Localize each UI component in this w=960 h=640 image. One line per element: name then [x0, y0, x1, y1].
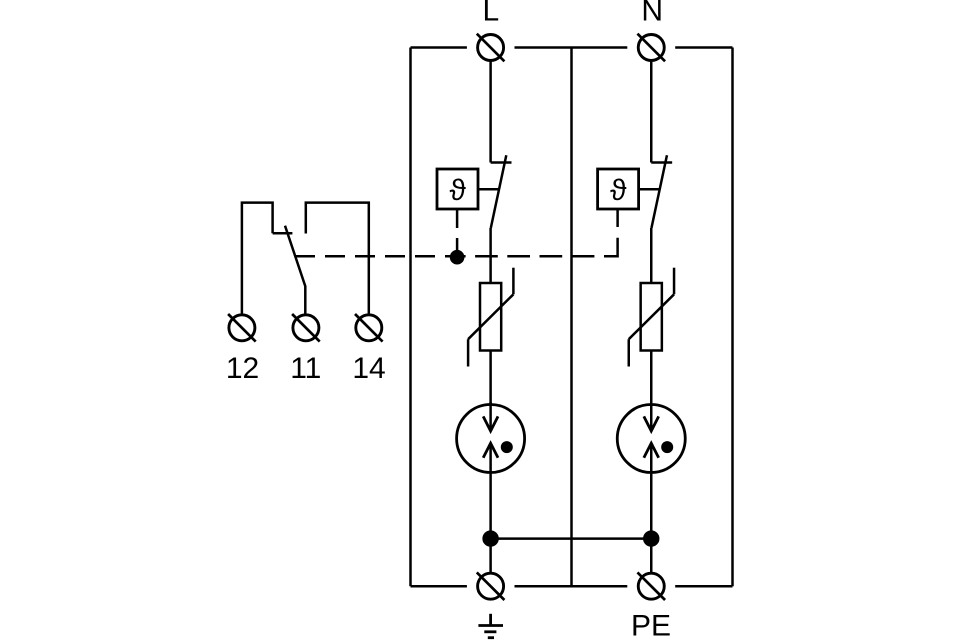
wire L terminal to thermal switch	[489, 48, 492, 163]
wire spark gap to earth bus L	[489, 473, 492, 587]
terminal 12	[228, 314, 256, 342]
junction dot earth bus N	[643, 530, 659, 546]
svg-text:ϑ: ϑ	[449, 174, 466, 207]
spark gap indicator circle L	[457, 402, 525, 473]
dashed corner piece trip line N	[604, 238, 618, 257]
wire N terminal to thermal switch	[650, 48, 653, 163]
remote contact wire 12	[242, 203, 273, 315]
wire thermal box to blade N	[639, 188, 660, 191]
remote contact wire 14	[306, 203, 369, 315]
wire blade to varistor N	[650, 228, 653, 283]
thermal disconnect box N	[598, 169, 639, 209]
switch blade N	[651, 155, 667, 228]
thermal disconnect box L	[437, 169, 478, 209]
svg-text:PE: PE	[631, 610, 671, 640]
wire spark gap to earth bus N	[650, 473, 653, 587]
wire thermal box to blade L	[478, 188, 499, 191]
remote contact tick 12	[273, 232, 293, 235]
switch fixed contact tick L	[491, 161, 512, 164]
enclosure box top edge segments	[411, 46, 467, 49]
svg-text:L: L	[482, 0, 499, 28]
switch fixed contact tick N	[651, 161, 672, 164]
svg-text:11: 11	[290, 352, 321, 385]
dashed mechanical trip line	[457, 255, 594, 258]
svg-text:ϑ: ϑ	[610, 174, 627, 207]
svg-text:12: 12	[226, 352, 259, 385]
svg-text:14: 14	[352, 352, 385, 385]
wire blade to varistor L	[489, 228, 492, 283]
ground symbol	[478, 614, 503, 638]
terminal 14	[355, 314, 383, 342]
wire earth crossbar	[491, 537, 652, 540]
spark gap indicator circle N	[617, 402, 685, 473]
varistor N	[629, 268, 674, 367]
enclosure box left edge	[409, 48, 412, 587]
terminal PE bottom	[637, 572, 665, 600]
junction dot on trip line	[450, 250, 465, 265]
terminal L	[477, 34, 505, 62]
enclosure box bottom edge segments	[411, 585, 467, 588]
wire varistor to spark gap N	[650, 351, 653, 405]
wire varistor to spark gap L	[489, 351, 492, 405]
wire middle vertical bus	[570, 48, 573, 587]
terminal N	[637, 34, 665, 62]
terminal 11	[292, 314, 320, 342]
switch blade L	[491, 155, 507, 228]
enclosure box right edge	[731, 48, 734, 587]
dashed link thermal box to trip line L	[456, 209, 459, 250]
dashed link thermal box to trip line N	[616, 209, 619, 227]
remote contact blade 11	[285, 226, 305, 315]
varistor L	[468, 268, 513, 367]
svg-text:N: N	[641, 0, 663, 28]
terminal earth bottom	[477, 572, 505, 600]
junction dot earth bus L	[482, 530, 498, 546]
